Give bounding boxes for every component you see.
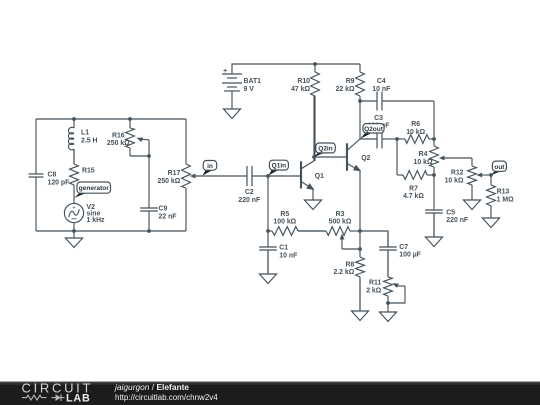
node R9-C4 junction <box>358 99 362 103</box>
wire node to C7 <box>360 231 388 247</box>
capacitor C4 <box>360 92 434 111</box>
flag Q2out <box>360 124 384 139</box>
node bottom rail at V2 <box>72 229 76 233</box>
wire R9 down to Q2 collector <box>359 101 361 139</box>
wire bottom-left rail <box>36 230 186 232</box>
ground Q1 emitter <box>304 200 321 210</box>
R3 wiper arrow <box>340 234 345 250</box>
R17 wiper arrow <box>190 174 247 179</box>
node R4-R7 junction <box>432 173 436 177</box>
svg-text:generator: generator <box>79 185 109 192</box>
ground below C5 <box>425 213 442 247</box>
ground below R12 <box>463 200 480 210</box>
potentiometer R12 <box>468 166 477 200</box>
potentiometer R16 <box>126 119 135 156</box>
node C3-R6-R7 junction <box>395 137 399 141</box>
svg-text:R15: R15 <box>82 168 95 175</box>
svg-text:Q2: Q2 <box>361 155 370 162</box>
wire R4 wiper to R12 <box>471 158 473 166</box>
node R3 wiper junction <box>358 247 362 251</box>
wire R5 to R3 <box>298 230 326 232</box>
svg-text:jaigurgon / Elefante: jaigurgon / Elefante <box>114 382 189 392</box>
svg-text:Q1in: Q1in <box>272 163 286 170</box>
svg-text:+: + <box>223 66 228 75</box>
footer bar <box>0 382 540 405</box>
potentiometer R3 <box>314 227 360 236</box>
node C9 bottom junction <box>147 229 151 233</box>
capacitor C3 <box>360 130 397 149</box>
svg-text:Q1: Q1 <box>315 173 324 180</box>
svg-text:Q2in: Q2in <box>318 146 332 153</box>
svg-text:http://circuitlab.com/chnw2v4: http://circuitlab.com/chnw2v4 <box>115 393 218 402</box>
capacitor C1 <box>259 231 277 274</box>
transistor Q1 <box>301 161 314 200</box>
flag Q1in <box>268 160 288 175</box>
flag Q2in <box>314 143 335 157</box>
wire R6 left down to R7 <box>396 139 398 175</box>
potentiometer R4 <box>430 139 439 175</box>
resistor R10 <box>311 64 320 161</box>
svg-text:R112 kΩ: R112 kΩ <box>366 280 382 295</box>
capacitor C2 <box>247 166 301 186</box>
capacitor C8 <box>29 119 44 231</box>
flag out <box>491 161 507 175</box>
node Q1 collector junction <box>312 155 316 159</box>
wire R3 wiper to R8 node <box>342 248 360 250</box>
svg-text:out: out <box>494 164 505 171</box>
R11 wiper arrow <box>393 283 406 288</box>
resistor R7 <box>397 171 434 180</box>
ground below C1 <box>259 250 276 284</box>
svg-text:in: in <box>207 163 213 170</box>
capacitor C5 <box>425 175 443 237</box>
R4 wiper arrow <box>439 156 472 161</box>
wire Q1 base node down to R5-C1 <box>267 176 269 231</box>
ground below R8 <box>351 277 368 321</box>
node R3 right junction <box>358 229 362 233</box>
node R6-R4 junction <box>432 137 436 141</box>
capacitor C9 <box>140 156 158 231</box>
wire right rail C4 to R6 <box>433 101 435 139</box>
flag generator <box>74 182 110 198</box>
svg-text:LAB: LAB <box>66 393 91 405</box>
node R12 wiper - out - R13 <box>489 173 493 177</box>
wire top-left rail <box>36 118 186 120</box>
wire Q1 collector up to R10 <box>313 96 315 161</box>
wire Q2 emitter down to node <box>359 171 361 231</box>
resistor R9 <box>356 64 365 101</box>
R12 wiper arrow <box>477 173 492 178</box>
potentiometer R11 <box>384 250 393 303</box>
resistor R5 <box>268 227 314 236</box>
transistor Q2 <box>347 139 360 171</box>
ground below BAT1 <box>223 109 240 119</box>
potentiometer R17 <box>182 164 191 231</box>
ground below R13 <box>482 218 499 228</box>
wire Q1 collector to Q2 base <box>314 156 347 158</box>
wire R16 bottom to wiper node <box>130 155 149 157</box>
resistor R8 <box>356 231 365 311</box>
ground below V2 <box>65 231 82 248</box>
node R11 bottom junction <box>386 301 390 305</box>
battery BAT1 <box>222 64 360 109</box>
svg-text:+: + <box>72 205 76 211</box>
resistor R6 <box>397 135 434 144</box>
node Q1 base junction <box>266 174 270 178</box>
voltage source V2 <box>64 203 83 231</box>
wire R11 wiper loop <box>388 286 405 303</box>
resistor R15 <box>70 149 79 204</box>
node R5-C1 junction <box>266 229 270 233</box>
node R16 wiper junction <box>147 154 151 158</box>
flag in <box>202 161 216 176</box>
node R16 top junction <box>128 117 132 121</box>
R16 wiper arrow <box>137 138 149 156</box>
svg-text:Q2out: Q2out <box>364 126 384 133</box>
resistor R13 <box>487 175 496 218</box>
ground below R11 <box>379 303 396 322</box>
wire top rail to R17 <box>185 119 187 164</box>
capacitor C7 <box>379 231 397 277</box>
inductor L1 <box>68 119 74 164</box>
node L1 top junction <box>72 117 76 121</box>
node R10 top rail junction <box>313 62 317 66</box>
